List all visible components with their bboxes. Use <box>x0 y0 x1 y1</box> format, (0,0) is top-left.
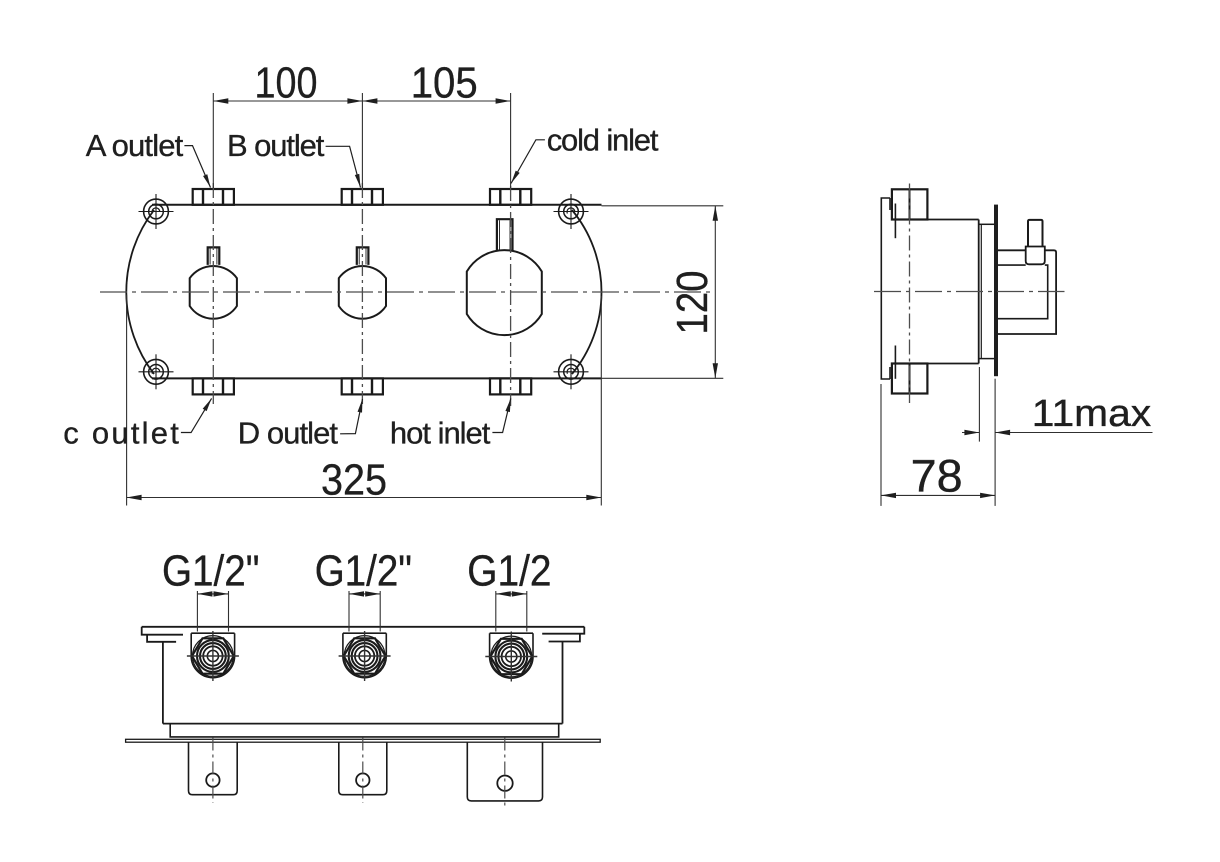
side flange inner step bottom <box>894 346 896 379</box>
port B cup <box>343 633 386 677</box>
port hot circles <box>491 636 532 677</box>
leader hot inlet <box>492 398 510 432</box>
dim 11max extension line left <box>978 367 980 442</box>
knob A body <box>190 266 237 319</box>
front body bottom line <box>152 377 602 379</box>
dim line 120 <box>714 206 716 378</box>
dim G1/2 hot extensions <box>496 591 527 632</box>
centerline vertical A <box>212 183 214 404</box>
dim G1/2 A extensions <box>197 591 228 632</box>
leader B outlet <box>326 146 361 187</box>
side centerline vertical <box>909 184 911 404</box>
dim 325 arrows <box>127 495 142 500</box>
block A <box>189 742 238 795</box>
knob cold body <box>467 250 542 335</box>
port A cup <box>191 633 234 678</box>
svg-text:A outlet: A outlet <box>86 128 184 163</box>
dim G1/2 B extensions <box>349 591 380 632</box>
corner screw hole top-left <box>139 194 174 229</box>
port hot cup <box>490 633 533 678</box>
side wall plate <box>994 205 998 377</box>
bottom view wall plate edge <box>126 739 601 742</box>
leader cold inlet <box>511 140 545 184</box>
bottom view body right edge <box>562 642 564 724</box>
port hot center marks <box>485 632 537 682</box>
svg-text:D outlet: D outlet <box>238 416 339 451</box>
side body top line <box>897 219 979 221</box>
bottom view right tab <box>542 627 584 642</box>
block hot <box>467 742 542 801</box>
block A centerline <box>212 738 214 804</box>
svg-text:G1/2": G1/2" <box>315 546 412 595</box>
svg-text:120: 120 <box>668 271 717 335</box>
corner screw hole bottom-right <box>554 354 589 389</box>
block B centerline <box>362 738 364 804</box>
dim 100/105 extension line B <box>361 93 363 188</box>
front body right arc <box>572 210 602 374</box>
centerline horizontal front <box>100 291 712 293</box>
leader c outlet <box>181 398 212 432</box>
port A circles <box>193 636 234 677</box>
bottom view left tab <box>142 627 183 642</box>
side handle stem <box>1028 220 1043 247</box>
dim 100/105 extension line A <box>212 93 214 188</box>
centerline vertical cold <box>510 186 512 406</box>
front body top line <box>152 204 602 206</box>
block A hole <box>206 773 219 786</box>
hex fitting bottom D <box>342 378 383 394</box>
side body right edge <box>978 220 980 364</box>
port B center marks <box>339 631 391 681</box>
dim 120 extension line top <box>602 205 724 207</box>
dim 325 extension line left <box>126 295 128 506</box>
knob B body <box>339 266 386 319</box>
bottom view top line <box>142 626 585 628</box>
svg-text:hot inlet: hot inlet <box>390 416 491 451</box>
port B circles <box>344 636 385 677</box>
side flange top cap <box>889 198 891 210</box>
side body bottom line <box>897 363 979 365</box>
knob cold stem <box>497 219 513 250</box>
bottom view base strip <box>170 724 559 737</box>
svg-text:c outlet: c outlet <box>63 416 179 451</box>
dim line 11max left tail <box>962 432 979 434</box>
dim 11max extension line right <box>994 379 996 506</box>
side handle collar <box>1026 247 1045 265</box>
dim 325 extension line right <box>600 296 602 506</box>
svg-text:325: 325 <box>321 455 387 504</box>
port A hex <box>192 638 234 673</box>
side step top <box>979 223 994 225</box>
dim line 325 <box>127 497 602 499</box>
svg-text:11max: 11max <box>1032 393 1151 435</box>
svg-text:G1/2": G1/2" <box>162 546 259 595</box>
side hex nut bottom <box>892 364 928 394</box>
hex fitting top B <box>342 189 383 205</box>
side handle outer bracket <box>998 250 1056 334</box>
leader A outlet <box>184 146 210 188</box>
side step bottom <box>979 358 994 360</box>
side centerline horizontal <box>874 291 1065 293</box>
port hot hex <box>490 639 532 674</box>
dim G1/2 B arrows <box>349 591 364 596</box>
side flange inner step top <box>894 204 896 239</box>
svg-text:105: 105 <box>411 59 478 108</box>
side flange bottom cap <box>889 367 891 379</box>
dim 100 arrows <box>213 98 228 103</box>
svg-text:cold inlet: cold inlet <box>547 123 659 158</box>
dim 78 extension line left <box>880 384 882 506</box>
corner screw hole bottom-left <box>139 354 174 389</box>
svg-text:G1/2: G1/2 <box>467 546 551 595</box>
side flange outer edge <box>881 198 890 379</box>
dim line 78 <box>881 494 995 496</box>
block hot hole <box>497 776 512 791</box>
dim 120 arrows <box>713 206 718 221</box>
svg-text:B outlet: B outlet <box>227 128 325 163</box>
hex fitting bottom hot <box>490 378 531 394</box>
hex fitting top cold <box>490 189 531 205</box>
front body left arc <box>126 210 154 374</box>
block B hole <box>356 773 369 786</box>
svg-text:78: 78 <box>911 451 963 502</box>
svg-text:100: 100 <box>255 59 318 108</box>
dim 120 extension line bottom <box>602 377 724 379</box>
dim 78 arrows <box>881 493 896 498</box>
port A center marks <box>187 631 239 681</box>
side body right edge inner <box>980 224 982 358</box>
knob A stem <box>208 247 220 265</box>
bottom view body bottom line <box>163 723 563 725</box>
corner screw hole top-right <box>554 194 589 229</box>
block hot centerline <box>504 738 506 809</box>
port B hex <box>344 638 386 673</box>
side hex nut top <box>892 189 928 219</box>
hex fitting bottom c <box>193 378 234 394</box>
centerline vertical B <box>361 183 363 404</box>
dim G1/2 A arrows <box>197 591 212 596</box>
bottom view body left edge <box>162 642 164 724</box>
dim G1/2 hot arrows <box>496 591 511 596</box>
knob B stem <box>357 247 369 265</box>
block B <box>339 742 387 795</box>
side handle inner bracket <box>998 265 1048 319</box>
dim line 11max right <box>995 432 1152 434</box>
dim 100/105 extension line cold <box>510 93 512 188</box>
dim line 100-105 <box>213 100 510 102</box>
dim 11max arrows <box>964 430 979 435</box>
leader D outlet <box>340 399 362 434</box>
hex fitting top A <box>193 189 234 205</box>
dim 105 arrows <box>362 98 377 103</box>
